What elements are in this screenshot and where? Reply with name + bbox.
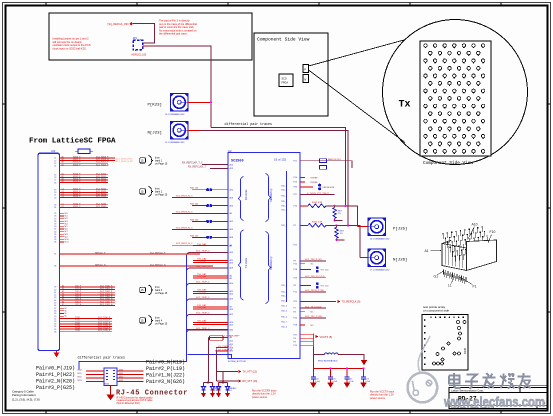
svg-text:A6: A6	[230, 245, 232, 248]
net labels pair right column	[146, 360, 185, 386]
svg-text:Component Side View: Component Side View	[423, 161, 473, 166]
svg-text:SC2_TX05_N: SC2_TX05_N	[100, 299, 113, 301]
sheet ref box red	[210, 336, 224, 341]
svg-text:P15: P15	[294, 182, 297, 184]
resistor R101 series P	[300, 205, 308, 207]
svg-text:on Page 15: on Page 15	[155, 292, 168, 295]
off-sheet note bank 1	[140, 156, 168, 166]
svg-text:A3: A3	[62, 161, 64, 164]
svg-text:RX_REFCLKP_T_C: RX_REFCLKP_T_C	[182, 163, 203, 165]
J10 pin stubs lower	[60, 307, 65, 309]
svg-text:52: 52	[54, 321, 56, 323]
wire J10 row y=158	[60, 157, 116, 159]
ferrite bead FB9 right	[300, 186, 313, 188]
resistor R103 shunt P	[334, 206, 336, 208]
svg-text:J7 CONSMA003.062: J7 CONSMA003.062	[370, 268, 390, 271]
svg-text:P21: P21	[294, 160, 297, 162]
svg-text:P18: P18	[294, 269, 297, 271]
wire J10 row y=329	[60, 328, 113, 330]
svg-text:SC2_TX07_N: SC2_TX07_N	[100, 304, 113, 306]
svg-text:TXD_2: TXD_2	[281, 317, 287, 319]
wire to SMA P[J25]	[358, 226, 368, 228]
svg-text:P[J25]: P[J25]	[393, 227, 407, 232]
svg-text:P9: P9	[294, 261, 296, 263]
svg-text:clock input on SC02 ball K25.: clock input on SC02 ball K25.	[53, 46, 87, 50]
svg-text:D2: D2	[62, 206, 64, 208]
svg-text:40: 40	[54, 289, 56, 291]
svg-text:TX_VTT (12): TX_VTT (12)	[243, 370, 258, 373]
ground arrow at L1	[361, 359, 366, 364]
wires into RJ45 left	[86, 370, 104, 372]
svg-text:1%: 1%	[340, 233, 343, 235]
resistor R102 series N	[300, 224, 308, 226]
svg-text:N: N	[304, 78, 306, 82]
svg-text:44: 44	[54, 300, 56, 302]
svg-text:on component side: on component side	[423, 309, 449, 313]
svg-text:RXREF: RXREF	[311, 182, 319, 184]
svg-text:SC2_RX31: SC2_RX31	[96, 206, 107, 208]
svg-text:TXD_8: TXD_8	[281, 296, 287, 298]
resistor R104 shunt N	[336, 225, 338, 227]
off-sheet note bank 3	[140, 285, 168, 295]
svg-text:A30: A30	[230, 329, 233, 332]
note VCCRX	[252, 390, 277, 399]
wire J10 row y=198	[60, 197, 109, 199]
svg-text:A18: A18	[230, 196, 233, 199]
svg-text:SC2_RX09_N: SC2_RX09_N	[96, 164, 109, 166]
wire J10 row y=321	[60, 320, 113, 322]
svg-text:SC2_TX8_N_P (12): SC2_TX8_N_P (12)	[305, 276, 325, 278]
wire P differential pair trace	[211, 127, 345, 205]
wire J10 row y=298	[60, 297, 116, 299]
svg-text:TX1_N: TX1_N	[75, 288, 82, 290]
wire J10 row y=190	[60, 189, 109, 191]
svg-text:P10: P10	[294, 177, 297, 179]
svg-text:the differential pair trace.: the differential pair trace.	[159, 32, 188, 36]
svg-text:A4: A4	[230, 212, 232, 215]
svg-text:P12: P12	[294, 263, 297, 265]
svg-text:18: 18	[54, 182, 56, 184]
svg-text:14: 14	[54, 166, 56, 168]
svg-text:NC3: NC3	[65, 221, 68, 223]
title block	[449, 386, 548, 409]
svg-text:37: 37	[54, 254, 56, 256]
ground at RJ45	[107, 386, 114, 400]
svg-text:on Page 15: on Page 15	[155, 163, 168, 166]
svg-text:RX23_P: RX23_P	[73, 196, 81, 198]
svg-text:24: 24	[54, 207, 56, 209]
mech labels	[425, 222, 496, 288]
svg-text:on Page 15: on Page 15	[155, 323, 168, 326]
svg-text:P2: P2	[294, 225, 296, 227]
svg-text:power source.: power source.	[252, 396, 268, 399]
J10 unused pin stubs	[60, 212, 65, 214]
svg-text:NC1: NC1	[65, 216, 68, 218]
svg-text:TXD_3: TXD_3	[281, 210, 287, 212]
svg-text:SC2_TXON_P (13): SC2_TXON_P (13)	[305, 290, 324, 292]
svg-text:J5 CONSMA003.062: J5 CONSMA003.062	[165, 141, 185, 144]
svg-text:P4: P4	[294, 311, 296, 313]
svg-text:A29: A29	[230, 298, 233, 301]
wire J10 row y=292	[60, 291, 116, 293]
svg-text:P12: P12	[294, 292, 297, 294]
wire J10 row y=300	[60, 299, 116, 301]
BGA ball array	[424, 44, 485, 154]
svg-text:C4: C4	[62, 196, 64, 198]
svg-text:Pairing Information:: Pairing Information:	[12, 393, 36, 397]
watermark text 电子发烧友 (drawn)	[449, 373, 531, 388]
svg-text:Pair#2_N(K20): Pair#2_N(K20)	[36, 378, 75, 384]
svg-text:RX31_P: RX31_P	[73, 206, 81, 208]
svg-text:SC2_TXC_P (13): SC2_TXC_P (13)	[305, 316, 322, 318]
svg-text:D1: D1	[203, 396, 205, 398]
svg-text:REFCLK_N: REFCLK_N	[95, 265, 106, 267]
svg-text:TX7_N: TX7_N	[75, 304, 82, 306]
svg-text:P10: P10	[294, 206, 297, 208]
U2 right REFCLK row	[300, 161, 352, 168]
jumper JP1	[132, 36, 147, 57]
svg-text:HDR1X2_100: HDR1X2_100	[132, 54, 147, 57]
U2 right lower rows	[300, 260, 326, 262]
wire J10 row y=161	[60, 160, 116, 162]
mechanical view press-fit connector	[442, 226, 495, 261]
svg-text:Tx: Tx	[399, 100, 411, 111]
svg-text:F5: F5	[62, 299, 64, 301]
svg-text:A12: A12	[230, 340, 233, 343]
svg-text:NC8: NC8	[65, 234, 68, 236]
wire to ESD group 1	[207, 337, 209, 382]
wire J10 row y=175	[60, 174, 109, 176]
wires RJ45 right	[117, 370, 144, 372]
svg-text:RJ45: RJ45	[463, 347, 467, 354]
svg-text:J6 CONSMA003.062: J6 CONSMA003.062	[370, 237, 390, 240]
svg-text:TXD_6: TXD_6	[281, 186, 287, 188]
node P sum	[344, 205, 346, 207]
svg-text:P6: P6	[294, 342, 296, 344]
wire J10 row y=290	[60, 289, 116, 291]
svg-text:NC4: NC4	[65, 223, 68, 225]
svg-text:J4 CONSMA003.062: J4 CONSMA003.062	[165, 113, 185, 116]
U2 bottom right pins to TX_REFCLK node	[300, 334, 313, 336]
svg-text:REFCLK 110: REFCLK 110	[328, 159, 342, 161]
component side view box	[254, 33, 328, 116]
svg-text:P22: P22	[294, 245, 297, 247]
svg-text:1%: 1%	[338, 213, 341, 215]
svg-text:0.1uF: 0.1uF	[332, 381, 338, 383]
brace tx group left	[239, 230, 244, 300]
wire J10 row y=163	[60, 162, 109, 164]
ground at J10	[54, 351, 59, 357]
svg-text:A10: A10	[472, 222, 478, 226]
svg-text:NC0: NC0	[65, 213, 68, 215]
svg-text:B4: B4	[62, 181, 64, 183]
wire TP1 to jumper JP1	[133, 24, 154, 44]
bus branch into U2	[187, 328, 229, 330]
svg-text:Pair#3_P(G25): Pair#3_P(G25)	[36, 385, 75, 391]
capacitor C21	[330, 368, 332, 376]
wire JP1 pin2 to SMA P	[143, 45, 148, 47]
svg-text:38: 38	[54, 266, 56, 268]
svg-text:A1: A1	[62, 156, 64, 159]
RJ-45 connector J2	[104, 368, 117, 386]
svg-text:TXD_1: TXD_1	[281, 190, 287, 192]
svg-text:C-5: C-5	[214, 390, 217, 392]
wire J10 row y=266	[60, 265, 214, 267]
svg-text:VCCTX (5): VCCTX (5)	[320, 335, 333, 339]
svg-text:A28: A28	[230, 267, 233, 270]
wire J10 row y=303	[60, 302, 116, 304]
note text	[53, 37, 91, 51]
svg-text:TXD_0: TXD_0	[281, 225, 287, 227]
svg-text:A26: A26	[230, 204, 233, 207]
svg-text:SC2_TX_DI (13): SC2_TX_DI (13)	[305, 306, 321, 308]
svg-text:A15: A15	[230, 313, 233, 316]
connector body faces	[442, 240, 497, 271]
svg-text:A28: A28	[230, 236, 233, 239]
svg-text:F1: F1	[62, 288, 64, 290]
bus vertical to RJ45	[79, 256, 187, 370]
svg-text:TXD_3: TXD_3	[281, 327, 287, 329]
svg-text:Pair#0_N(K19): Pair#0_N(K19)	[146, 360, 185, 366]
internal port line	[286, 171, 288, 302]
svg-text:L1: L1	[448, 284, 452, 288]
svg-text:F10: F10	[490, 230, 496, 234]
svg-text:SC2_TX11_P: SC2_TX11_P	[98, 320, 111, 322]
svg-text:SC2_RX23: SC2_RX23	[96, 196, 107, 198]
svg-text:Pair#1_P(H22): Pair#1_P(H22)	[36, 372, 75, 378]
SMA connector P[J25]	[368, 218, 386, 236]
svg-text:A23: A23	[230, 261, 233, 264]
wire J10 row y=205	[60, 204, 109, 206]
svg-text:0.1uF: 0.1uF	[349, 381, 355, 383]
svg-text:TXD_3: TXD_3	[281, 292, 287, 294]
svg-text:SC2_RX13: SC2_RX13	[96, 181, 107, 183]
svg-text:P[K23]: P[K23]	[148, 103, 162, 108]
wire J10 row y=177	[60, 176, 109, 178]
svg-text:NC10: NC10	[65, 239, 69, 241]
wire J10 row y=192	[60, 191, 109, 193]
svg-text:TP1: TP1	[107, 22, 113, 26]
svg-text:A24: A24	[230, 292, 233, 295]
svg-text:(1,2), (3,6), (4,5), (7,8): (1,2), (3,6), (4,5), (7,8)	[12, 398, 40, 402]
svg-text:NC5: NC5	[65, 226, 68, 228]
svg-text:G1: G1	[434, 275, 439, 279]
svg-text:SC2_TX8_P (12): SC2_TX8_P (12)	[305, 259, 322, 261]
U2 right small stubs	[300, 177, 305, 179]
svg-text:P3: P3	[294, 338, 296, 340]
svg-text:R101 4.99: R101 4.99	[312, 202, 323, 204]
svg-text:on Page 15: on Page 15	[155, 194, 168, 197]
svg-text:NC9: NC9	[65, 236, 68, 238]
svg-text:SERDES Q: SERDES Q	[269, 257, 273, 270]
capacitor C23	[363, 368, 365, 376]
svg-text:A25: A25	[230, 323, 233, 326]
wire J10 row y=166	[60, 165, 109, 167]
brace tx group mid	[266, 232, 271, 304]
note VCCTX	[370, 391, 395, 400]
svg-text:36: 36	[54, 242, 56, 244]
svg-text:VTT 110: VTT 110	[321, 286, 330, 288]
off-sheet note bank 2	[140, 187, 168, 197]
svg-text:SC2_REFCLK_P: SC2_REFCLK_P	[150, 253, 166, 255]
svg-text:A10: A10	[230, 308, 233, 311]
bus stub under U2	[187, 355, 231, 359]
svg-text:D2: D2	[218, 396, 220, 398]
U2 pin names	[230, 160, 297, 352]
svg-text:RXREF: RXREF	[311, 177, 319, 179]
wire J10 row y=254	[60, 253, 201, 255]
svg-text:NC11: NC11	[65, 242, 69, 244]
svg-text:A14: A14	[230, 282, 233, 285]
test point TP1	[107, 22, 133, 26]
svg-text:FB9 BLM18: FB9 BLM18	[323, 187, 335, 189]
svg-text:A9: A9	[230, 277, 232, 280]
svg-text:NC7: NC7	[65, 231, 68, 233]
J10 pin number column	[54, 158, 56, 334]
svg-text:FB10 BLM18AG601: FB10 BLM18AG601	[318, 360, 338, 363]
svg-text:FPGA: FPGA	[282, 82, 289, 85]
wire to ESD group 2	[216, 351, 223, 383]
svg-text:SC2_REFCLK_N: SC2_REFCLK_N	[150, 265, 166, 267]
svg-text:P20: P20	[294, 187, 297, 189]
brace rx group mid	[266, 174, 271, 222]
wire J10 row y=295	[60, 294, 116, 296]
wire row with net name	[300, 194, 335, 196]
svg-text:REFCLK_OSC: REFCLK_OSC	[114, 24, 130, 26]
svg-text:Pair#2_P(L19): Pair#2_P(L19)	[146, 366, 185, 372]
wire J10 row y=180	[60, 179, 109, 181]
svg-text:F7: F7	[62, 304, 64, 306]
svg-text:SERDES Q: SERDES Q	[269, 189, 273, 202]
category 5 note	[12, 389, 40, 401]
svg-text:Lattice Semiconductor Corp.: Lattice Semiconductor Corp.	[451, 389, 484, 393]
svg-text:REFCLK_P: REFCLK_P	[95, 253, 106, 255]
watermark logo circle	[408, 336, 438, 402]
svg-text:SCO: SCO	[282, 78, 287, 81]
wire N differential pair trace	[188, 129, 200, 131]
svg-text:(Not an Ethernet Port): (Not an Ethernet Port)	[117, 402, 141, 405]
magnifier cone lines	[309, 40, 406, 143]
svg-text:TXD_6: TXD_6	[281, 285, 287, 287]
svg-text:A13: A13	[230, 251, 233, 254]
svg-text:S_TXON_VTT_TX8_P: S_TXON_VTT_TX8_P	[307, 193, 330, 195]
svg-text:P27: P27	[294, 194, 297, 196]
svg-text:NC6: NC6	[65, 229, 68, 231]
svg-text:SC2_RX08_N,RX: SC2_RX08_N,RX	[116, 161, 134, 163]
wire SMA P[K23] to node	[188, 101, 211, 103]
svg-text:N[J26]: N[J26]	[393, 258, 407, 263]
svg-text:C-5: C-5	[229, 390, 232, 392]
svg-text:Component Side View: Component Side View	[257, 37, 310, 43]
svg-text:www.elecfans.com: www.elecfans.com	[443, 394, 545, 410]
ESD diode array D1	[207, 382, 209, 384]
ESD diode array D2	[222, 382, 224, 384]
capacitor C22	[346, 368, 348, 376]
net labels pair left column	[36, 365, 75, 391]
test points array box	[423, 305, 449, 313]
wire J10 row y=195	[60, 194, 109, 196]
FPGA outline in side view	[279, 74, 293, 87]
svg-text:NC: NC	[311, 264, 315, 266]
svg-text:46: 46	[54, 305, 56, 307]
svg-text:A1: A1	[425, 249, 429, 253]
svg-text:Pair#3_N(G26): Pair#3_N(G26)	[146, 379, 185, 385]
svg-text:P22: P22	[294, 301, 297, 303]
svg-text:A12: A12	[230, 220, 233, 223]
svg-text:SC2S60: SC2S60	[231, 160, 244, 164]
svg-text:NC: NC	[311, 312, 315, 314]
svg-text:TXD_4: TXD_4	[281, 301, 287, 303]
bypass cap row	[300, 285, 311, 287]
svg-text:P26: P26	[294, 277, 297, 279]
svg-text:22: 22	[54, 197, 56, 199]
brace rx group left	[239, 177, 244, 221]
svg-text:P18: P18	[294, 325, 297, 327]
svg-text:16 of 132: 16 of 132	[274, 157, 286, 161]
capacitor C20	[312, 368, 314, 376]
svg-text:differential pair traces: differential pair traces	[78, 356, 126, 360]
inductor L1 VCCTX filter	[313, 354, 324, 356]
svg-text:Pair#0_P(J19): Pair#0_P(J19)	[36, 365, 75, 371]
wire to SMA N[J26]	[360, 257, 368, 259]
svg-text:TXD_3: TXD_3	[281, 201, 287, 203]
svg-text:NC2: NC2	[65, 218, 68, 220]
magnifier circle Tx ball view	[383, 20, 528, 165]
svg-text:differential pair traces: differential pair traces	[225, 122, 273, 126]
svg-text:TX_REFCLK (5): TX_REFCLK (5)	[342, 300, 361, 304]
svg-text:R102 4.99: R102 4.99	[312, 222, 323, 224]
svg-text:A2: A2	[62, 158, 64, 161]
svg-text:TXD_7: TXD_7	[281, 322, 287, 324]
svg-text:Pair#1_N(J22): Pair#1_N(J22)	[146, 373, 185, 379]
resistor R5 top of J10	[75, 150, 93, 152]
svg-text:N[J23]: N[J23]	[148, 131, 162, 136]
svg-text:P6: P6	[294, 285, 296, 287]
svg-text:P10: P10	[294, 345, 297, 347]
svg-text:RX_REFCLKN_T: RX_REFCLKN_T	[188, 167, 206, 169]
svg-text:TXD_5: TXD_5	[281, 311, 287, 313]
wire J10 row y=319	[60, 318, 113, 320]
svg-text:A19: A19	[230, 167, 233, 170]
svg-text:TXD_8: TXD_8	[281, 206, 287, 208]
bypass cap row	[300, 269, 311, 271]
SMA connector N[J26]	[368, 249, 386, 267]
SMA pad N	[303, 75, 309, 83]
svg-text:TX5_N: TX5_N	[75, 299, 82, 301]
svg-text:power source.: power source.	[370, 397, 386, 400]
svg-text:A10: A10	[230, 188, 233, 191]
wire J10 row y=207	[60, 206, 109, 208]
svg-text:F1: F1	[473, 284, 477, 288]
svg-text:SC2S60_BOTTOM: SC2S60_BOTTOM	[228, 361, 246, 363]
node P junction	[210, 101, 212, 103]
svg-text:A20: A20	[230, 228, 233, 231]
VCCTX decoupling rail	[313, 367, 364, 369]
wire J10 row y=287	[60, 286, 116, 288]
svg-text:TXD_7: TXD_7	[281, 196, 287, 198]
svg-text:NC: NC	[311, 325, 315, 327]
svg-text:TX chnls: TX chnls	[244, 257, 248, 268]
svg-text:RX chnls: RX chnls	[244, 189, 248, 200]
svg-text:RX_VTT (13): RX_VTT (13)	[243, 380, 258, 383]
wire J10 row y=326	[60, 326, 113, 328]
svg-text:SC2_RX08_P,RX: SC2_RX08_P,RX	[116, 158, 134, 160]
note box	[49, 13, 252, 60]
wire J10 row y=332	[60, 331, 113, 333]
svg-text:RX13_P: RX13_P	[73, 181, 81, 183]
svg-text:56: 56	[54, 331, 56, 333]
SMA pad P	[303, 65, 309, 73]
